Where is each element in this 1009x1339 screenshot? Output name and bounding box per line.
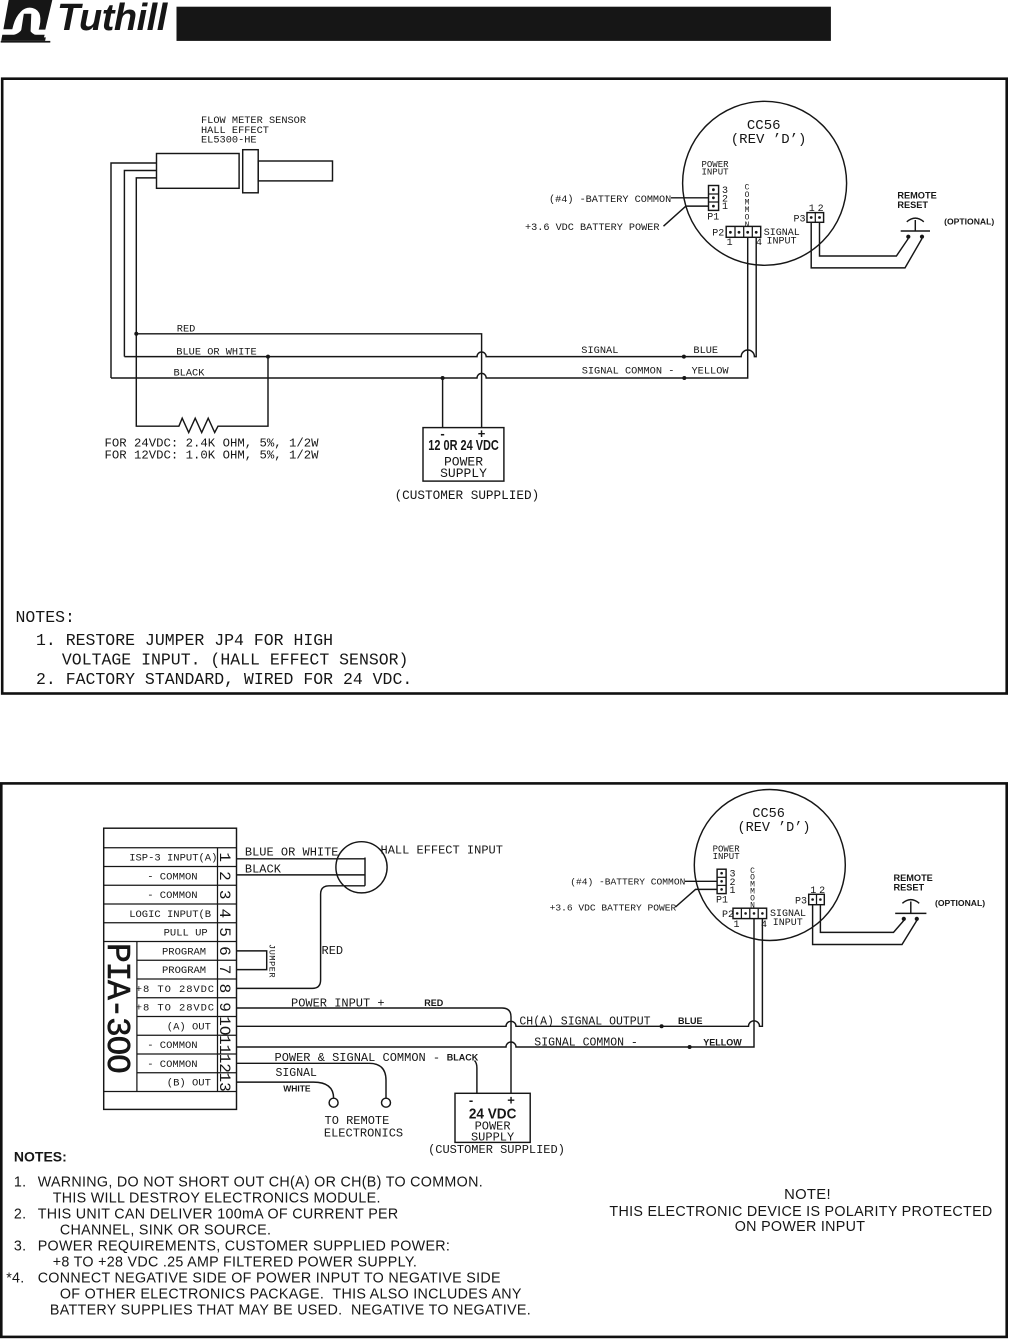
wire P3 pin 2 to button left <box>820 905 903 933</box>
svg-text:POWER REQUIREMENTS, CUSTOMER S: POWER REQUIREMENTS, CUSTOMER SUPPLIED PO… <box>38 1239 451 1255</box>
svg-text:13: 13 <box>215 1072 233 1091</box>
wire red <box>136 334 481 428</box>
border frame box 2 <box>1 783 1006 1337</box>
svg-text:7: 7 <box>215 965 233 975</box>
dot signal <box>682 355 686 359</box>
svg-text:- COMMON: - COMMON <box>147 1059 197 1071</box>
svg-text:ON POWER INPUT: ON POWER INPUT <box>735 1219 866 1235</box>
svg-text:SIGNAL COMMON -: SIGNAL COMMON - <box>582 366 675 378</box>
dot signal common <box>688 1045 692 1049</box>
svg-text:POWER & SIGNAL COMMON -: POWER & SIGNAL COMMON - <box>275 1051 441 1065</box>
svg-text:4: 4 <box>761 920 767 931</box>
leader battery power to P1 pin 1 <box>676 889 718 907</box>
vertical label COMMON <box>750 867 755 911</box>
svg-text:(#4) -BATTERY COMMON: (#4) -BATTERY COMMON <box>570 876 685 887</box>
connector P3 <box>807 213 824 223</box>
svg-text:THIS ELECTRONIC DEVICE IS POLA: THIS ELECTRONIC DEVICE IS POLARITY PROTE… <box>609 1204 992 1220</box>
wire sensor lead to blue <box>124 171 156 357</box>
svg-text:PULL UP: PULL UP <box>164 928 208 940</box>
svg-text:2. FACTORY STANDARD, WIRED FOR: 2. FACTORY STANDARD, WIRED FOR 24 VDC. <box>36 670 412 689</box>
CC56 enclosure circle <box>694 790 845 941</box>
svg-text:POWER INPUT +: POWER INPUT + <box>291 996 385 1010</box>
CC56 enclosure circle <box>683 101 847 265</box>
connector P1 <box>709 186 719 211</box>
svg-text:N: N <box>745 221 750 230</box>
wire terminal 10 CH(A) signal output to P2 pin 4 <box>237 919 763 1027</box>
svg-text:9: 9 <box>215 1002 233 1012</box>
wire P3 pin 1 to button right <box>811 222 922 268</box>
svg-text:+8 TO +28 VDC .25 AMP FILTERED: +8 TO +28 VDC .25 AMP FILTERED POWER SUP… <box>53 1255 417 1271</box>
svg-text:1: 1 <box>215 852 233 862</box>
svg-text:4: 4 <box>215 909 233 919</box>
connector P3 <box>809 894 825 904</box>
hall sensor bar <box>364 858 366 886</box>
svg-text:2: 2 <box>215 871 233 881</box>
svg-text:1.: 1. <box>14 1175 27 1191</box>
border frame box 1 <box>2 79 1007 694</box>
svg-text:RESET: RESET <box>897 200 928 210</box>
leader battery common to P1 pin 2 <box>671 197 709 199</box>
wire P3 pin 1 to button right <box>813 905 917 945</box>
svg-text:1: 1 <box>727 238 733 249</box>
hall effect sensor circle <box>336 842 387 893</box>
svg-text:THIS WILL DESTROY ELECTRONICS: THIS WILL DESTROY ELECTRONICS MODULE. <box>53 1191 381 1207</box>
junction dot black/supply <box>441 376 445 380</box>
svg-text:P3: P3 <box>794 214 806 225</box>
svg-text:CC56: CC56 <box>752 807 784 822</box>
leader battery common to P1 pin 2 <box>685 880 717 882</box>
PIA-300 terminal block outline <box>104 828 237 1109</box>
sensor probe <box>258 161 332 181</box>
svg-text:INPUT: INPUT <box>773 918 803 929</box>
svg-text:3.: 3. <box>14 1239 27 1255</box>
svg-text:12 0R 24 VDC: 12 0R 24 VDC <box>428 437 499 454</box>
svg-text:PROGRAM: PROGRAM <box>162 965 206 977</box>
svg-text:8: 8 <box>215 984 233 994</box>
svg-text:NOTE!: NOTE! <box>784 1187 831 1203</box>
svg-text:+3.6 VDC BATTERY POWER: +3.6 VDC BATTERY POWER <box>525 223 660 234</box>
svg-text:BLACK: BLACK <box>447 1052 479 1062</box>
svg-text:(OPTIONAL): (OPTIONAL) <box>935 898 985 908</box>
svg-text:INPUT: INPUT <box>702 167 730 177</box>
svg-text:- COMMON: - COMMON <box>147 871 197 883</box>
wire black signal common to P2 pin 3 <box>111 237 748 378</box>
Tuthill logo icon <box>1 0 53 43</box>
junction dot red/resistor <box>134 332 138 336</box>
svg-text:VOLTAGE INPUT. (HALL EFFECT SE: VOLTAGE INPUT. (HALL EFFECT SENSOR) <box>62 650 409 669</box>
svg-text:11: 11 <box>215 1035 233 1054</box>
svg-text:(REV ’D’): (REV ’D’) <box>738 821 811 836</box>
svg-text:(A) OUT: (A) OUT <box>167 1021 211 1033</box>
svg-text:NOTES:: NOTES: <box>16 608 75 627</box>
svg-text:- COMMON: - COMMON <box>147 1040 197 1052</box>
svg-text:1 2: 1 2 <box>809 204 824 215</box>
svg-text:SIGNAL: SIGNAL <box>581 345 618 357</box>
wire terminal 13 to ring terminal 1 <box>237 1082 334 1098</box>
svg-text:1: 1 <box>734 920 740 931</box>
wire sensor lead to red <box>136 178 156 334</box>
header black bar <box>177 7 831 41</box>
svg-text:N: N <box>750 901 755 910</box>
ring terminal 2 <box>382 1098 391 1107</box>
svg-text:SIGNAL COMMON -: SIGNAL COMMON - <box>534 1036 638 1049</box>
svg-text:CH(A) SIGNAL OUTPUT: CH(A) SIGNAL OUTPUT <box>519 1016 650 1029</box>
svg-text:YELLOW: YELLOW <box>692 366 730 378</box>
power supply PS1 box <box>423 428 504 482</box>
wire terminal 12 to ring terminal 2 <box>237 1063 387 1098</box>
terminal block row dividers <box>104 848 237 1092</box>
svg-text:(CUSTOMER SUPPLIED): (CUSTOMER SUPPLIED) <box>428 1143 565 1157</box>
svg-text:3: 3 <box>215 890 233 900</box>
svg-text:2.: 2. <box>14 1207 27 1223</box>
connector P2 <box>726 226 761 237</box>
svg-text:BATTERY SUPPLIES THAT MAY BE U: BATTERY SUPPLIES THAT MAY BE USED. NEGAT… <box>50 1303 531 1319</box>
svg-text:(#4) -BATTERY COMMON: (#4) -BATTERY COMMON <box>549 194 671 206</box>
ring terminal 1 <box>329 1098 338 1107</box>
svg-text:12: 12 <box>215 1054 233 1073</box>
leader black to supply minus <box>475 1061 477 1094</box>
svg-text:NOTES:: NOTES: <box>14 1149 67 1165</box>
svg-text:WHITE: WHITE <box>283 1084 311 1094</box>
svg-text:RESET: RESET <box>894 883 925 893</box>
svg-text:ISP-3 INPUT(A): ISP-3 INPUT(A) <box>129 853 217 865</box>
svg-text:Tuthill: Tuthill <box>57 0 169 39</box>
resistor R1 <box>136 334 268 433</box>
svg-text:1: 1 <box>722 202 728 213</box>
svg-text:REMOTE: REMOTE <box>897 190 936 200</box>
svg-text:FOR 12VDC: 1.0K OHM, 5%, 1/2W: FOR 12VDC: 1.0K OHM, 5%, 1/2W <box>105 448 320 462</box>
svg-text:*4.: *4. <box>6 1271 24 1287</box>
svg-text:RED: RED <box>424 998 444 1008</box>
svg-text:P1: P1 <box>707 213 719 224</box>
svg-text:PIA-3OO: PIA-3OO <box>98 943 135 1073</box>
svg-text:HALL EFFECT INPUT: HALL EFFECT INPUT <box>381 844 503 858</box>
svg-text:- COMMON: - COMMON <box>147 890 197 902</box>
connector P2 <box>733 908 767 918</box>
svg-text:1. RESTORE JUMPER JP4 FOR HIGH: 1. RESTORE JUMPER JP4 FOR HIGH <box>36 631 333 650</box>
svg-text:YELLOW: YELLOW <box>703 1037 742 1047</box>
svg-text:INPUT: INPUT <box>713 852 741 862</box>
svg-text:WARNING, DO NOT SHORT OUT CH(A: WARNING, DO NOT SHORT OUT CH(A) OR CH(B)… <box>38 1175 483 1191</box>
vertical label COMMON <box>745 184 750 231</box>
power supply PS2 box <box>455 1093 530 1142</box>
svg-text:EL5300-HE: EL5300-HE <box>201 135 257 147</box>
svg-text:BLUE: BLUE <box>678 1016 703 1026</box>
svg-text:1 2: 1 2 <box>810 886 825 897</box>
wire blue/white signal to P2 pin 4 <box>124 237 756 356</box>
svg-text:(CUSTOMER SUPPLIED): (CUSTOMER SUPPLIED) <box>395 488 540 503</box>
svg-text:+3.6 VDC BATTERY POWER: +3.6 VDC BATTERY POWER <box>550 902 677 913</box>
svg-text:BLUE OR WHITE: BLUE OR WHITE <box>245 846 339 860</box>
wire terminal 11 signal common to P2 pin 3 <box>237 919 755 1047</box>
wire terminal 2 to hall sensor <box>237 874 366 876</box>
terminal pin numbers (rotated) <box>215 852 233 1091</box>
sensor collar <box>243 150 259 193</box>
dot signal common <box>682 376 686 380</box>
svg-text:1O: 1O <box>215 1016 233 1035</box>
svg-text:4: 4 <box>756 238 762 249</box>
wire terminal 9 power input to supply plus <box>237 1008 512 1093</box>
flow meter sensor body <box>157 154 240 189</box>
remote reset pushbutton SW1 <box>901 218 930 239</box>
svg-text:P2: P2 <box>712 229 724 240</box>
svg-text:5: 5 <box>215 927 233 937</box>
svg-text:ELECTRONICS: ELECTRONICS <box>324 1126 403 1140</box>
jumper bracket terminals 6-7 <box>237 951 267 970</box>
svg-text:CONNECT NEGATIVE SIDE OF POWER: CONNECT NEGATIVE SIDE OF POWER INPUT TO … <box>38 1271 501 1287</box>
dot ch(a) <box>660 1024 664 1028</box>
svg-text:1: 1 <box>730 886 736 897</box>
svg-text:BLUE: BLUE <box>693 345 718 357</box>
leader battery power to P1 pin 1 <box>664 206 709 226</box>
svg-text:RED: RED <box>322 944 344 958</box>
connector P1 <box>717 869 726 893</box>
svg-text:6: 6 <box>215 946 233 956</box>
svg-text:+8 TO 28VDC: +8 TO 28VDC <box>136 984 215 996</box>
svg-text:P3: P3 <box>795 896 807 907</box>
svg-text:REMOTE: REMOTE <box>894 873 933 883</box>
svg-text:THIS UNIT CAN DELIVER 100mA OF: THIS UNIT CAN DELIVER 100mA OF CURRENT P… <box>38 1207 399 1223</box>
wire black to supply minus <box>442 378 444 428</box>
svg-text:JUMPER: JUMPER <box>266 944 276 978</box>
svg-text:P1: P1 <box>716 896 728 907</box>
wire sensor lead to black <box>111 163 157 378</box>
svg-text:SIGNAL: SIGNAL <box>276 1067 318 1080</box>
svg-text:SUPPLY: SUPPLY <box>440 466 487 481</box>
svg-text:INPUT: INPUT <box>767 237 797 248</box>
svg-text:PROGRAM: PROGRAM <box>162 946 206 958</box>
svg-text:(OPTIONAL): (OPTIONAL) <box>944 216 994 226</box>
svg-text:OF OTHER ELECTRONICS PACKAGE.: OF OTHER ELECTRONICS PACKAGE. THIS ALSO … <box>60 1287 522 1303</box>
svg-text:+8 TO 28VDC: +8 TO 28VDC <box>136 1003 215 1015</box>
svg-text:LOGIC INPUT(B: LOGIC INPUT(B <box>129 909 211 921</box>
remote reset pushbutton SW2 <box>895 900 926 921</box>
junction dot blue/resistor <box>266 355 270 359</box>
svg-text:CHANNEL, SINK OR SOURCE.: CHANNEL, SINK OR SOURCE. <box>60 1223 271 1239</box>
wire terminal 1 to hall sensor <box>237 858 366 860</box>
wire P3 pin 2 to button left <box>820 222 909 256</box>
wire hall sensor red lead to terminal 8 <box>237 886 366 989</box>
svg-text:(REV ’D’): (REV ’D’) <box>731 132 807 148</box>
svg-text:P2: P2 <box>722 910 734 921</box>
svg-text:(B) OUT: (B) OUT <box>167 1078 211 1090</box>
